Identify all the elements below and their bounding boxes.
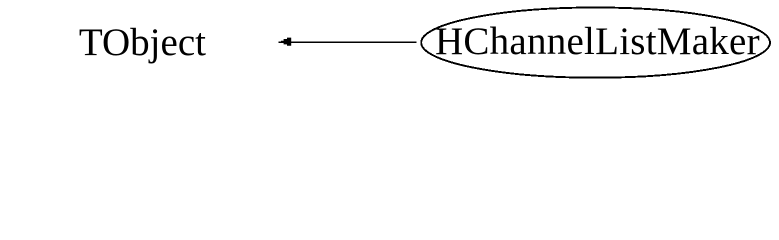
wire: inheritance arrow shaft from ellipse to TObject	[279, 41, 417, 43]
svg-text:HChannelListMaker: HChannelListMaker	[435, 20, 760, 63]
svg-text:TObject: TObject	[79, 21, 206, 64]
node HChannelListMaker (class ellipse)	[421, 8, 770, 78]
arrowhead pointing at TObject (stepped triangle)	[281, 38, 291, 46]
